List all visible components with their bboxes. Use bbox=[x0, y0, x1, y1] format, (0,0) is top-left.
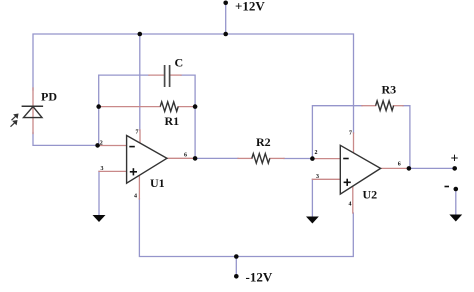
svg-text:R2: R2 bbox=[256, 135, 271, 149]
svg-text:U1: U1 bbox=[150, 176, 165, 190]
svg-text:C: C bbox=[175, 56, 184, 70]
svg-text:R3: R3 bbox=[382, 83, 397, 97]
svg-text:-12V: -12V bbox=[246, 270, 273, 285]
svg-text:4: 4 bbox=[134, 194, 137, 200]
svg-text:4: 4 bbox=[349, 202, 352, 208]
svg-text:+12V: +12V bbox=[235, 0, 265, 14]
svg-text:7: 7 bbox=[136, 130, 139, 136]
svg-text:3: 3 bbox=[101, 166, 104, 172]
svg-text:6: 6 bbox=[184, 153, 187, 159]
svg-text:6: 6 bbox=[398, 162, 401, 168]
svg-text:2: 2 bbox=[315, 150, 318, 156]
svg-text:R1: R1 bbox=[165, 114, 180, 128]
svg-text:+: + bbox=[451, 152, 459, 167]
svg-text:U2: U2 bbox=[363, 188, 378, 202]
svg-text:3: 3 bbox=[316, 174, 319, 180]
svg-text:7: 7 bbox=[349, 130, 352, 136]
svg-text:PD: PD bbox=[41, 90, 57, 104]
svg-text:2: 2 bbox=[100, 141, 103, 147]
